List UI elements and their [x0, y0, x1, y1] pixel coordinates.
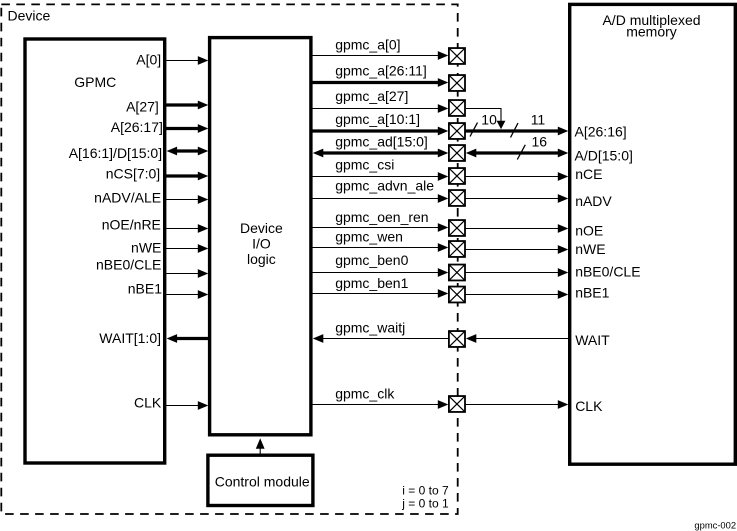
bus width label 11 [531, 111, 546, 127]
block Control module [208, 455, 313, 505]
svg-text:A[16:1]/D[15:0]: A[16:1]/D[15:0] [69, 145, 162, 161]
signal A[16:1]/D[15:0]: label [69, 145, 162, 161]
net gpmc_waitj: label [335, 320, 405, 336]
svg-text:Device: Device [240, 220, 283, 236]
signal nWE: label [131, 240, 161, 256]
signal nBE0/CLE: label [96, 257, 161, 273]
svg-text:gpmc_a[27]: gpmc_a[27] [335, 88, 408, 104]
wire control module to IO logic [256, 438, 265, 455]
svg-text:gpmc_ben0: gpmc_ben0 [335, 252, 408, 268]
net gpmc_a[26:11]: wire IO-pad [311, 78, 448, 87]
signal nCS[7:0]: label [106, 166, 160, 182]
svg-text:memory: memory [626, 24, 677, 40]
memory pin CLK: wire pad-memory [465, 400, 568, 409]
svg-text:nWE: nWE [575, 241, 605, 257]
net gpmc_ben1: wire IO-pad [311, 289, 448, 298]
svg-text:16: 16 [532, 134, 548, 150]
net gpmc_advn_ale: label [335, 177, 434, 193]
signal nCS[7:0]: wire GPMC-IO [165, 172, 208, 181]
svg-text:nBE0/CLE: nBE0/CLE [96, 257, 161, 273]
svg-text:gpmc_oen_ren: gpmc_oen_ren [335, 209, 428, 225]
svg-text:A[26:17]: A[26:17] [111, 119, 163, 135]
svg-text:A[27]: A[27] [126, 98, 159, 114]
memory pin nCE: label [575, 166, 602, 182]
svg-text:nBE0/CLE: nBE0/CLE [575, 263, 640, 279]
svg-text:nCE: nCE [575, 166, 602, 182]
svg-text:gpmc_advn_ale: gpmc_advn_ale [335, 177, 434, 193]
memory pin WAIT: label [575, 332, 610, 348]
signal WAIT[1:0]: label [99, 330, 161, 346]
memory pin nCE: wire pad-memory [465, 172, 568, 181]
net gpmc_ben0: wire IO-pad [311, 268, 448, 277]
net gpmc_advn_ale: wire IO-pad [311, 194, 448, 203]
pad gpmc_ad[15:0] [449, 145, 465, 161]
memory pin WAIT: wire pad-memory [466, 334, 568, 343]
signal A[0]: label [136, 52, 161, 68]
memory pin A[26:16]: label [575, 123, 627, 139]
block Device I/O logic [210, 38, 311, 435]
memory pin nWE: label [575, 241, 605, 257]
svg-text:nBE1: nBE1 [575, 284, 609, 300]
note j = 0 to 1 [401, 496, 449, 510]
svg-text:gpmc_a[10:1]: gpmc_a[10:1] [335, 111, 420, 127]
svg-text:gpmc_csi: gpmc_csi [335, 157, 394, 173]
svg-text:logic: logic [247, 251, 276, 267]
signal nADV/ALE: label [94, 190, 161, 206]
bus width label 16 [532, 134, 548, 150]
signal A[0]: wire GPMC-IO [165, 56, 208, 65]
net gpmc_csi: wire IO-pad [311, 172, 448, 181]
pad gpmc_ben0 [449, 265, 465, 281]
pad gpmc_clk [449, 396, 465, 412]
svg-text:GPMC: GPMC [74, 74, 116, 90]
wire jog: gpmc_a[27] pad to A[26:16] bus [466, 109, 505, 130]
memory pin A/D[15:0]: wire pad-memory [466, 149, 569, 158]
figure id gpmc-002 [694, 520, 736, 531]
svg-text:10: 10 [481, 111, 497, 127]
pad gpmc_a[0] [449, 48, 465, 64]
net gpmc_wen: wire IO-pad [311, 243, 448, 252]
signal nBE1: label [128, 281, 162, 297]
svg-text:Device: Device [8, 8, 51, 24]
signal A[27]: label [126, 98, 159, 114]
bus width slash 11 [511, 123, 519, 138]
signal A[27]: wire GPMC-IO [165, 101, 208, 110]
pad gpmc_ben1 [449, 287, 465, 303]
svg-text:nOE: nOE [575, 223, 603, 239]
svg-text:gpmc_ad[15:0]: gpmc_ad[15:0] [335, 134, 428, 150]
bus width label 10 [481, 111, 497, 127]
memory pin A[26:16]: wire pad-memory [465, 127, 568, 136]
svg-text:I/O: I/O [252, 236, 271, 252]
svg-text:WAIT: WAIT [575, 332, 610, 348]
device boundary (dashed) [1, 4, 457, 514]
net gpmc_a[0]: wire IO-pad [311, 51, 448, 60]
net gpmc_a[10:1]: label [335, 111, 420, 127]
signal nOE/nRE: label [102, 216, 161, 232]
bus width slash 10 [470, 123, 478, 137]
net gpmc_clk: label [335, 386, 395, 402]
signal nBE1: wire GPMC-IO [165, 290, 208, 299]
signal nOE/nRE: wire GPMC-IO [165, 224, 208, 233]
memory pin nOE: wire pad-memory [465, 224, 568, 233]
svg-text:gpmc_ben1: gpmc_ben1 [335, 275, 408, 291]
net gpmc_ben0: label [335, 252, 408, 268]
label Device [8, 8, 51, 24]
net gpmc_clk: wire IO-pad [311, 400, 448, 409]
note i = 0 to 7 [402, 484, 449, 498]
pad gpmc_oen_ren [449, 220, 465, 236]
memory pin nBE0/CLE: label [575, 263, 640, 279]
net gpmc_waitj: wire IO-pad [313, 334, 449, 343]
signal CLK: wire GPMC-IO [165, 401, 208, 410]
pad gpmc_a[10:1] [449, 123, 465, 139]
svg-text:A[0]: A[0] [136, 52, 161, 68]
svg-text:gpmc_waitj: gpmc_waitj [335, 320, 405, 336]
signal A[26:17]: label [111, 119, 163, 135]
memory pin CLK: label [575, 398, 603, 414]
pad gpmc_a[27] [449, 100, 465, 116]
svg-text:CLK: CLK [134, 394, 162, 410]
signal A[26:17]: wire GPMC-IO [165, 124, 208, 133]
net gpmc_a[10:1]: wire IO-pad [311, 127, 448, 136]
memory pin nWE: wire pad-memory [465, 245, 568, 254]
svg-text:nOE/nRE: nOE/nRE [102, 216, 161, 232]
svg-text:11: 11 [531, 111, 546, 127]
signal A[16:1]/D[15:0]: wire GPMC-IO [167, 147, 209, 156]
pad gpmc_wen [449, 241, 465, 257]
svg-text:A/D[15:0]: A/D[15:0] [575, 148, 633, 164]
svg-text:j = 0 to 1: j = 0 to 1 [401, 496, 449, 510]
signal nWE: wire GPMC-IO [165, 244, 208, 253]
svg-text:gpmc_a[0]: gpmc_a[0] [335, 37, 400, 53]
memory pin nADV: label [575, 193, 612, 209]
memory pin nADV: wire pad-memory [465, 194, 568, 203]
memory pin A/D[15:0]: label [575, 148, 633, 164]
net gpmc_oen_ren: label [335, 209, 428, 225]
signal WAIT[1:0]: wire GPMC-IO [167, 334, 209, 343]
memory pin nOE: label [575, 223, 603, 239]
svg-text:gpmc_wen: gpmc_wen [335, 229, 403, 245]
net gpmc_a[27]: wire IO-pad [311, 104, 448, 113]
memory pin nBE0/CLE: wire pad-memory [465, 268, 568, 277]
signal CLK: label [134, 394, 162, 410]
block GPMC [25, 39, 165, 463]
net gpmc_oen_ren: wire IO-pad [311, 223, 448, 232]
svg-text:A[26:16]: A[26:16] [575, 123, 627, 139]
svg-text:nADV: nADV [575, 193, 612, 209]
svg-text:gpmc-002: gpmc-002 [694, 520, 736, 531]
net gpmc_wen: label [335, 229, 403, 245]
block A/D multiplexed memory [570, 4, 736, 464]
svg-text:nCS[7:0]: nCS[7:0] [106, 166, 160, 182]
svg-text:gpmc_clk: gpmc_clk [335, 386, 395, 402]
svg-text:Control module: Control module [215, 473, 310, 489]
net gpmc_a[27]: label [335, 88, 408, 104]
signal nADV/ALE: wire GPMC-IO [165, 195, 208, 204]
svg-text:nBE1: nBE1 [128, 281, 162, 297]
signal nBE0/CLE: wire GPMC-IO [165, 269, 208, 278]
svg-text:nADV/ALE: nADV/ALE [94, 190, 161, 206]
pad gpmc_a[26:11] [449, 75, 465, 91]
svg-text:gpmc_a[26:11]: gpmc_a[26:11] [335, 63, 427, 79]
memory pin nBE1: label [575, 284, 609, 300]
net gpmc_ad[15:0]: wire IO-pad [313, 149, 449, 158]
net gpmc_csi: label [335, 157, 394, 173]
svg-text:nWE: nWE [131, 240, 161, 256]
pad gpmc_waitj [449, 331, 465, 347]
net gpmc_ad[15:0]: label [335, 134, 428, 150]
svg-text:WAIT[1:0]: WAIT[1:0] [99, 330, 161, 346]
pad gpmc_advn_ale [449, 190, 465, 206]
pad gpmc_csi [449, 168, 465, 184]
memory pin nBE1: wire pad-memory [465, 290, 568, 299]
net gpmc_ben1: label [335, 275, 408, 291]
bus width slash 16 [517, 145, 525, 160]
net gpmc_a[26:11]: label [335, 63, 427, 79]
net gpmc_a[0]: label [335, 37, 400, 53]
svg-text:CLK: CLK [575, 398, 603, 414]
